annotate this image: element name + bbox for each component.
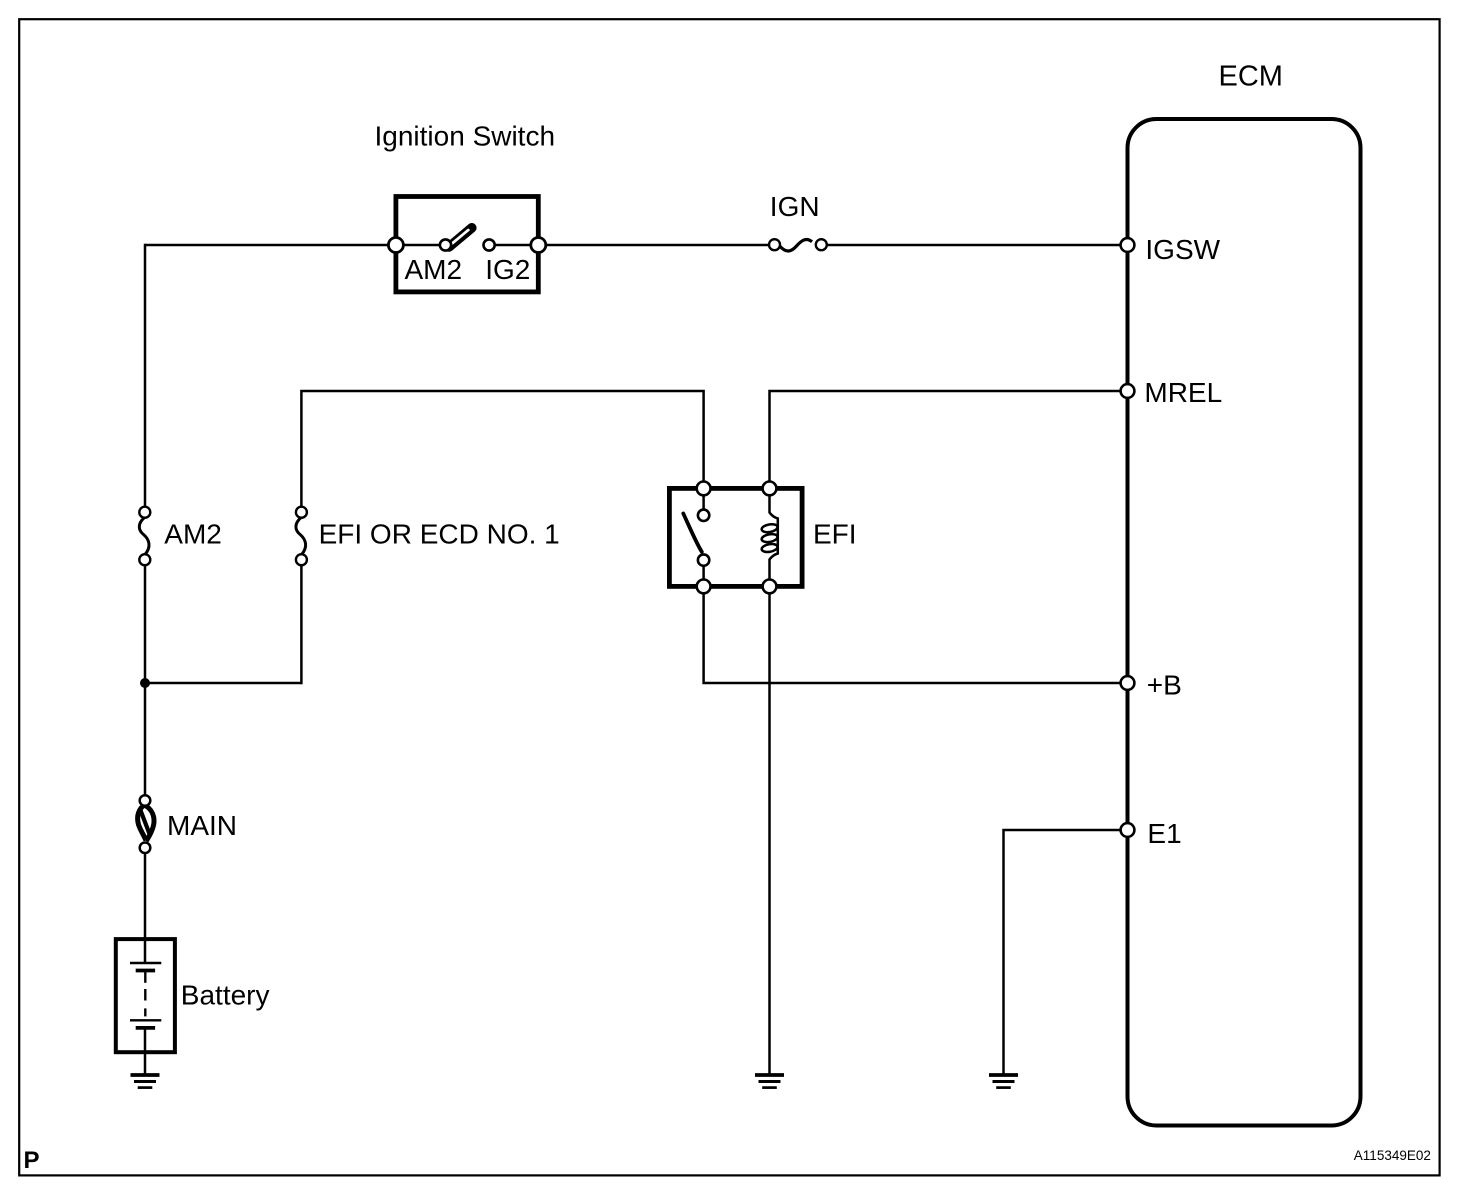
relay terminal top-right: [763, 482, 777, 496]
svg-text:E1: E1: [1147, 818, 1181, 849]
wire EFI fuse bottom lead: [300, 564, 303, 684]
fuse AM2: [139, 507, 150, 566]
terminal AM2 (ignition switch left): [388, 238, 403, 253]
wire relay switch output to +B pin: [704, 586, 1128, 683]
wire battery negative to ground: [144, 1028, 147, 1074]
ignition switch SW1: [396, 197, 538, 292]
wire relay contact stub: [702, 488, 705, 510]
pin E1: [1121, 823, 1135, 837]
svg-text:P: P: [24, 1147, 40, 1174]
contact IG2 (fixed): [484, 239, 495, 250]
relay contact lower: [698, 554, 709, 565]
relay terminal top-left: [697, 482, 711, 496]
pin MREL: [1121, 384, 1135, 398]
relay terminal bottom-left: [697, 580, 711, 594]
svg-text:Battery: Battery: [181, 980, 270, 1011]
terminal IG2 (ignition switch right): [531, 238, 546, 253]
svg-text:Ignition Switch: Ignition Switch: [375, 120, 556, 151]
switch lever: [449, 228, 472, 247]
wire IG2 contact to terminal: [489, 244, 538, 247]
battery BAT1: [116, 939, 175, 1052]
wire AM2 terminal to contact: [396, 244, 445, 247]
svg-text:IGSW: IGSW: [1145, 234, 1220, 265]
fuse EFI OR ECD NO. 1: [296, 507, 307, 566]
svg-text:+B: +B: [1147, 670, 1182, 701]
contact AM2 (movable): [440, 239, 451, 250]
wire battery+ to ignition switch AM2 (top horizontal): [145, 244, 396, 247]
wire MREL to relay coil: [770, 391, 1128, 488]
pin IGSW: [1121, 238, 1135, 252]
junction node battery positive: [140, 678, 150, 688]
wire MAIN link to battery: [144, 852, 147, 963]
svg-text:IGN: IGN: [770, 191, 820, 222]
svg-text:ECM: ECM: [1219, 60, 1283, 92]
relay switch lever: [683, 514, 702, 552]
ground battery: [131, 1075, 160, 1088]
svg-text:AM2: AM2: [164, 519, 222, 550]
fuse IGN: [769, 239, 827, 251]
svg-text:A115349E02: A115349E02: [1354, 1148, 1431, 1163]
wire relay coil to ground: [768, 586, 771, 1074]
svg-text:AM2: AM2: [405, 254, 463, 285]
svg-text:EFI: EFI: [813, 519, 857, 550]
wire ignition switch to IGN fuse: [538, 244, 772, 247]
ECM U1: [1128, 119, 1361, 1126]
wire E1 pin to ground: [1004, 830, 1128, 1074]
relay coil L1: [761, 496, 778, 580]
ground E1: [989, 1075, 1018, 1088]
svg-text:MREL: MREL: [1144, 377, 1222, 408]
wire node to MAIN link: [144, 683, 147, 804]
wire AM2 fuse to node: [144, 564, 147, 683]
relay EFI: [669, 488, 802, 586]
pin +B: [1121, 676, 1135, 690]
wire EFI fuse top to relay contact: [301, 391, 703, 508]
ground relay coil: [755, 1075, 784, 1088]
relay terminal bottom-right: [763, 580, 777, 594]
svg-text:EFI OR ECD NO. 1: EFI OR ECD NO. 1: [319, 519, 560, 550]
fusible link MAIN: [138, 795, 154, 853]
wire IGN fuse to IGSW pin: [824, 244, 1128, 247]
wire left vertical battery+ riser: [144, 244, 147, 508]
wire node to EFI fuse branch: [144, 682, 302, 685]
wire relay lower contact stub: [702, 564, 705, 586]
relay fixed contact upper: [698, 510, 709, 521]
svg-text:MAIN: MAIN: [167, 810, 237, 841]
svg-text:IG2: IG2: [485, 254, 530, 285]
